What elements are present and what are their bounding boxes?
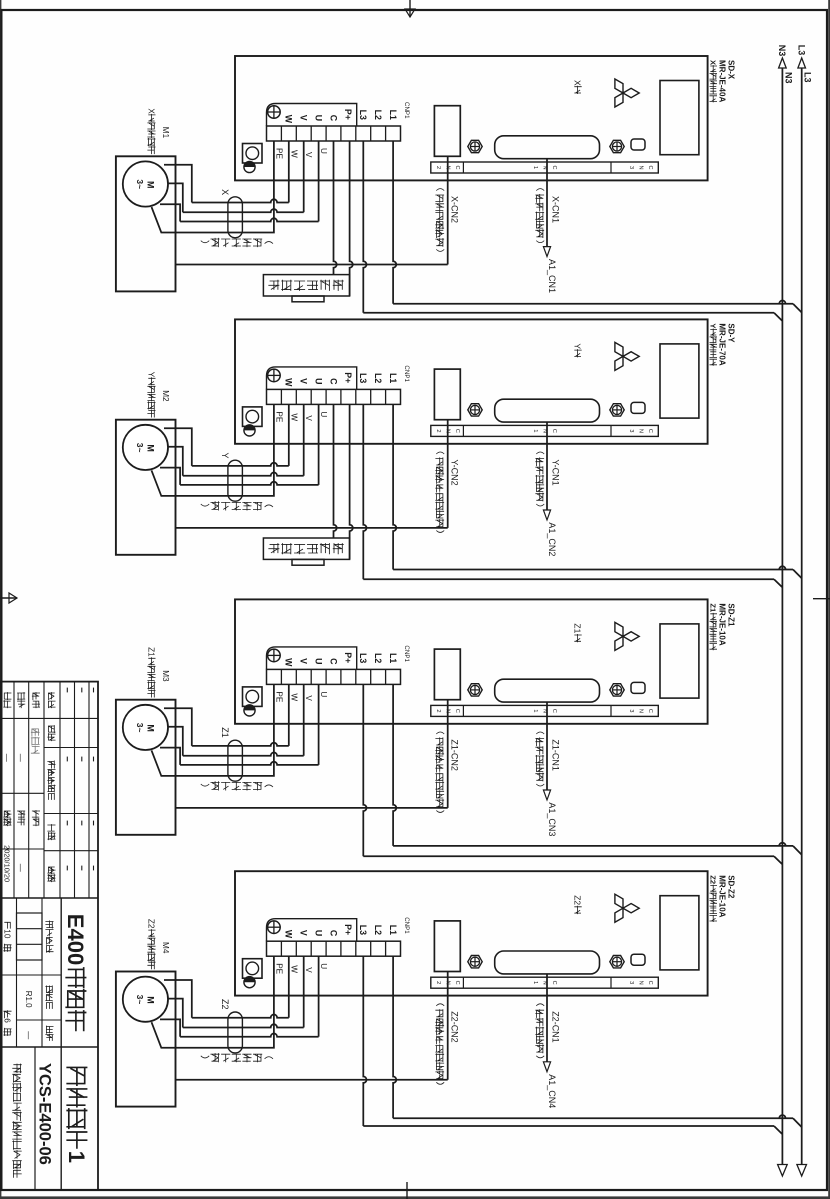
company 深圳市依创思科技有限公司 <box>13 1064 22 1073</box>
wire L3 of SD-X to bus N3 <box>363 141 366 313</box>
svg-text:W: W <box>284 658 294 667</box>
power cable oval SD-Z2 <box>228 1012 243 1053</box>
display panel of SD-X <box>660 81 699 155</box>
svg-text:V: V <box>304 152 313 158</box>
svg-text:M: M <box>146 724 156 732</box>
screw below CN1 on SD-Y <box>468 404 482 416</box>
svg-text:Y: Y <box>220 453 230 459</box>
connector CN2 socket on SD-Z2 <box>434 921 460 972</box>
svg-text:N: N <box>638 709 644 713</box>
svg-text:L3: L3 <box>358 653 368 663</box>
bar divider CN3/CN1 SD-Z2 <box>610 977 612 988</box>
wire V of SD-X <box>303 141 305 212</box>
terminal strip CNP1 of SD-Z1 <box>267 669 401 684</box>
svg-text:U: U <box>313 378 323 384</box>
screw bottom SD-X <box>244 161 255 172</box>
svg-text:Z2: Z2 <box>147 919 156 929</box>
connector CN2 socket on SD-Z1 <box>434 649 460 700</box>
terminal divider 7 SD-Y <box>295 389 297 404</box>
svg-text:Z1: Z1 <box>709 603 718 613</box>
wire U of SD-Z2 <box>318 956 320 1036</box>
power cable oval SD-X <box>228 197 243 238</box>
screw bottom SD-Z2 <box>244 977 255 988</box>
svg-text:P+: P+ <box>343 652 353 663</box>
sign 批准 <box>18 811 25 818</box>
svg-text:1: 1 <box>532 981 538 984</box>
svg-text:Z1: Z1 <box>147 647 156 657</box>
svg-text:P+: P+ <box>343 372 353 383</box>
title row line 2 <box>59 682 61 898</box>
terminal divider 5 SD-X <box>325 126 327 141</box>
svg-text:L3: L3 <box>358 373 368 383</box>
svg-text:Z2: Z2 <box>709 875 718 884</box>
page edge band top <box>828 0 830 1199</box>
header 日期 <box>48 867 55 874</box>
brake resistor element SD-Y <box>292 559 324 565</box>
wire W of SD-Y <box>288 404 290 466</box>
wire W of SD-Z1 <box>288 684 290 746</box>
label note2 SD-Y <box>436 452 444 454</box>
wire P+ of SD-Y <box>350 404 353 559</box>
svg-text:M3: M3 <box>161 670 170 682</box>
svg-text:Z1-CN1: Z1-CN1 <box>551 739 561 771</box>
svg-text:2: 2 <box>435 981 441 984</box>
motor box M3 of SD-Z1 <box>116 700 176 835</box>
screw below CN1 on SD-Z1 <box>468 684 482 696</box>
svg-text:N: N <box>638 429 644 433</box>
wire PE of SD-Z1 <box>152 684 274 776</box>
svg-text:X-CN2: X-CN2 <box>450 196 460 223</box>
svg-text:C: C <box>551 981 557 985</box>
revision dash r1 <box>81 688 83 693</box>
label note1 SD-Y <box>536 452 544 454</box>
svg-text:P+: P+ <box>343 109 353 120</box>
svg-text:R1.0: R1.0 <box>24 991 33 1008</box>
header 更改文件号 <box>48 761 55 768</box>
svg-text:U: U <box>313 115 323 121</box>
terminal divider 5 SD-Y <box>325 389 327 404</box>
svg-text:—: — <box>24 1031 33 1039</box>
terminal divider 1 SD-Z2 <box>385 941 387 956</box>
wire L3 riser SD-Z1 <box>363 855 774 857</box>
terminal divider 6 SD-Z1 <box>310 669 312 684</box>
svg-text:W: W <box>289 693 298 701</box>
svg-text:N3: N3 <box>777 45 787 57</box>
svg-text:U: U <box>313 658 323 664</box>
bar divider CN1/CN2 SD-Z2 <box>462 977 464 988</box>
A1 arrow SD-Y <box>543 510 550 520</box>
connector bar of SD-Z1 <box>431 705 659 716</box>
svg-text:V: V <box>299 930 309 936</box>
svg-text:W: W <box>289 965 298 973</box>
terminal divider 7 SD-Z1 <box>295 669 297 684</box>
wire W of SD-Z2 <box>288 956 290 1018</box>
svg-text:2: 2 <box>435 429 441 432</box>
svg-text:L1: L1 <box>388 925 398 935</box>
CNP1 bracket SD-Z1 <box>267 647 357 670</box>
sign col 793.3 <box>1 792 44 794</box>
display panel of SD-Y <box>660 344 699 418</box>
wire L1 of SD-Z1 to bus L3 <box>393 684 396 846</box>
screw above CN1 on SD-Z1 <box>610 684 624 696</box>
revision dash r0 <box>93 821 95 826</box>
svg-text:V: V <box>299 658 309 664</box>
label 伺服动力线 SD-X <box>265 242 273 244</box>
divider name/code <box>34 1047 36 1190</box>
A1 arrow SD-Z1 <box>543 790 550 800</box>
charge lamp square SD-X <box>243 144 263 164</box>
svg-text:X-CN1: X-CN1 <box>551 196 561 223</box>
CNP1 bracket SD-Y <box>267 367 357 390</box>
svg-text:1: 1 <box>532 709 538 712</box>
wire L1 riser SD-Y <box>393 566 793 569</box>
svg-text:C: C <box>454 429 460 433</box>
title row line 0 <box>88 682 90 898</box>
svg-text:Z2-CN1: Z2-CN1 <box>551 1011 561 1043</box>
svg-text:V: V <box>299 378 309 384</box>
svg-text:M: M <box>146 181 156 189</box>
label 伺服动力线 SD-Z1 <box>265 785 273 787</box>
terminal divider 5 SD-Z1 <box>325 669 327 684</box>
display panel of SD-Z2 <box>660 896 699 970</box>
wire PE of SD-X <box>152 141 274 233</box>
bar divider CN1/CN2 SD-X <box>462 162 464 173</box>
terminal label PE earth symbol SD-Y <box>268 369 281 382</box>
svg-text:X: X <box>709 60 718 65</box>
svg-text:CNP1: CNP1 <box>403 102 410 119</box>
wire W of SD-X <box>288 141 290 203</box>
motor circle M3 <box>123 705 168 750</box>
sign 何跃军 <box>31 729 39 736</box>
connector CN2 socket on SD-X <box>434 106 460 157</box>
title row line 5 <box>13 682 15 898</box>
wire L3 merge diagonal SD-Z2 <box>774 1126 782 1134</box>
revision dash r1 <box>81 757 83 762</box>
revision col 718.4 <box>44 717 98 719</box>
connector bar of SD-Y <box>431 425 659 436</box>
label 比例 <box>46 1026 53 1033</box>
label 伺服动力线 SD-Z2 <box>265 1057 273 1059</box>
wire L3 merge diagonal SD-Z1 <box>774 856 782 864</box>
terminal strip CNP1 of SD-X <box>267 126 401 141</box>
connector CN3 small socket on SD-Y <box>631 402 645 413</box>
svg-text:U: U <box>319 691 328 697</box>
svg-text:YCS-E400-06: YCS-E400-06 <box>36 1063 54 1165</box>
svg-text:C: C <box>328 658 338 665</box>
svg-text:6: 6 <box>3 1018 12 1023</box>
wire L1 merge diagonal SD-Z2 <box>793 1118 802 1127</box>
servo drive SD-Z2 outline box <box>235 871 708 995</box>
brake resistor element SD-X <box>292 296 324 302</box>
power cable oval SD-Y <box>228 460 243 501</box>
wire L3 riser SD-X <box>363 312 774 314</box>
A1 arrow SD-X <box>543 247 550 257</box>
svg-text:E400: E400 <box>63 914 88 965</box>
CN1 cable wire SD-Y <box>546 422 548 510</box>
label 伺服动力线 SD-Y <box>265 505 273 507</box>
svg-text:SD-Z2: SD-Z2 <box>727 875 736 899</box>
svg-text:X: X <box>147 108 156 114</box>
svg-text:3~: 3~ <box>135 179 145 189</box>
svg-text:2: 2 <box>435 709 441 712</box>
svg-text:L2: L2 <box>373 110 383 120</box>
sign 日期 <box>4 811 11 818</box>
CN1 cable wire SD-Z1 <box>546 702 548 790</box>
motor box M1 of SD-X <box>116 156 176 291</box>
wire U of SD-Y <box>318 404 320 485</box>
wire L1 riser SD-Z2 <box>393 1115 793 1118</box>
sign 设计 <box>32 693 39 700</box>
screw below CN1 on SD-X <box>468 140 482 152</box>
svg-text:U: U <box>319 963 328 969</box>
svg-text:C: C <box>328 930 338 937</box>
wire L1 of SD-Y to bus L3 <box>393 404 396 569</box>
bar divider CN1/CN2 SD-Z1 <box>462 705 464 716</box>
terminal divider 8 SD-X <box>280 126 282 141</box>
bus L3 source arrow <box>798 58 806 68</box>
svg-text:A1_CN2: A1_CN2 <box>547 522 557 556</box>
centering mark top edge <box>813 598 830 600</box>
svg-text:V: V <box>299 115 309 121</box>
svg-text:W: W <box>284 378 294 387</box>
screw above CN1 on SD-Y <box>610 404 624 416</box>
label note2 SD-Z1 <box>436 732 444 734</box>
svg-text:3: 3 <box>628 709 634 712</box>
connector CN1 D-sub on SD-Y <box>495 399 600 422</box>
revision dash r2 <box>66 821 68 826</box>
svg-text:C: C <box>551 709 557 713</box>
terminal divider 4 SD-X <box>340 126 342 141</box>
terminal divider 4 SD-Z2 <box>340 941 342 956</box>
wire U of SD-Z1 <box>318 684 320 765</box>
terminal divider 2 SD-Y <box>370 389 372 404</box>
svg-text:N: N <box>638 981 644 985</box>
svg-text:M2: M2 <box>161 390 170 402</box>
wire L3 riser SD-Z2 <box>363 1125 774 1127</box>
svg-text:C: C <box>551 429 557 433</box>
header 标记 <box>48 693 54 700</box>
svg-text:C: C <box>454 981 460 985</box>
svg-text:Z2: Z2 <box>573 895 583 905</box>
terminal divider 3 SD-Z2 <box>355 941 357 956</box>
svg-text:A1_CN3: A1_CN3 <box>547 802 557 836</box>
bar divider CN3/CN1 SD-Y <box>610 425 612 436</box>
label note1 SD-X <box>536 189 544 191</box>
centering mark right edge <box>406 1182 408 1199</box>
revision dash r2 <box>66 688 68 693</box>
wire L1 merge diagonal SD-Y <box>793 570 802 579</box>
terminal divider 4 SD-Z1 <box>340 669 342 684</box>
connector bar of SD-X <box>431 162 659 173</box>
revision dash r1 <box>81 866 83 871</box>
svg-text:V: V <box>304 415 313 421</box>
svg-text:Y-CN2: Y-CN2 <box>450 459 460 485</box>
stage row2 line <box>41 898 43 1047</box>
stage col line <box>1 974 61 976</box>
power cable oval SD-Z1 <box>228 740 243 781</box>
svg-text:PE: PE <box>274 691 283 702</box>
terminal divider 5 SD-Z2 <box>325 941 327 956</box>
title row line 3 <box>43 682 45 898</box>
svg-text:M: M <box>146 444 156 452</box>
svg-text:W: W <box>289 413 298 421</box>
label note1 SD-Z2 <box>536 1004 544 1006</box>
svg-text:3~: 3~ <box>135 995 145 1005</box>
charge lamp square SD-Z2 <box>243 959 263 979</box>
stage row3 line <box>16 898 18 1047</box>
revision dash r2 <box>66 866 68 871</box>
title block outline <box>1 682 98 1190</box>
terminal divider 7 SD-X <box>295 126 297 141</box>
svg-text:Y: Y <box>147 372 156 378</box>
svg-text:Z1: Z1 <box>220 727 230 738</box>
connector CN2 socket on SD-Y <box>434 369 460 420</box>
svg-text:Y-CN1: Y-CN1 <box>551 459 561 485</box>
sign col 849 <box>1 848 44 850</box>
title row line 1 <box>74 682 76 898</box>
svg-text:Z2: Z2 <box>220 999 230 1010</box>
svg-text:C: C <box>454 165 460 169</box>
terminal divider 8 SD-Z1 <box>280 669 282 684</box>
wire L1 merge diagonal SD-Z1 <box>793 846 802 855</box>
display panel of SD-Z1 <box>660 624 699 698</box>
header 处数 <box>48 726 55 733</box>
label 版本号 <box>46 986 53 993</box>
svg-text:X: X <box>220 189 230 195</box>
Mitsubishi logo on SD-Z2 <box>615 894 639 922</box>
label 内置制动电阻 SD-X <box>333 280 343 290</box>
svg-text:Z2-CN2: Z2-CN2 <box>450 1011 460 1043</box>
wire L1 riser SD-X <box>393 301 793 304</box>
svg-text:L3: L3 <box>803 72 813 83</box>
encoder wire Z1-CN2 SD-Z1 <box>447 700 449 808</box>
svg-text:L2: L2 <box>373 653 383 663</box>
svg-text:PE: PE <box>274 148 283 159</box>
built-in brake resistor box SD-X <box>263 275 349 296</box>
bar divider CN3/CN1 SD-X <box>610 162 612 173</box>
svg-text:SD-X: SD-X <box>727 60 736 80</box>
svg-text:C: C <box>328 115 338 122</box>
svg-text:U: U <box>313 930 323 936</box>
divider stage row <box>60 898 62 1190</box>
revision dash r0 <box>93 757 95 762</box>
bus N3 source arrow <box>779 58 787 68</box>
terminal divider 6 SD-Y <box>310 389 312 404</box>
wire L3 merge diagonal SD-Y <box>774 579 782 587</box>
wire L1 of SD-Z2 to bus L3 <box>393 956 396 1118</box>
servo drive SD-Y outline box <box>235 319 708 443</box>
revision col 850.7 <box>44 850 98 852</box>
page edge band right <box>0 1196 830 1199</box>
wire V of SD-Z1 <box>303 684 305 755</box>
svg-text:1: 1 <box>532 166 538 169</box>
terminal label PE earth symbol SD-Z1 <box>268 649 281 662</box>
screw bottom SD-Y <box>244 425 255 436</box>
terminal strip CNP1 of SD-Y <box>267 389 401 404</box>
svg-text:P+: P+ <box>343 924 353 935</box>
svg-text:N: N <box>638 165 644 169</box>
motor circle M1 <box>123 161 168 206</box>
Mitsubishi logo on SD-X <box>615 79 639 107</box>
CN1 cable wire SD-X <box>546 159 548 247</box>
Mitsubishi logo on SD-Y <box>615 342 639 370</box>
terminal divider 1 SD-X <box>385 126 387 141</box>
svg-text:L2: L2 <box>373 925 383 935</box>
terminal divider 1 SD-Z1 <box>385 669 387 684</box>
wire L1 riser SD-Z1 <box>393 843 793 846</box>
bar divider CN3/CN1 SD-Z1 <box>610 705 612 716</box>
encoder wire X-CN2 SD-X <box>447 156 449 264</box>
svg-text:Y: Y <box>573 343 583 349</box>
svg-text:CNP1: CNP1 <box>403 365 410 382</box>
svg-text:U: U <box>319 148 328 154</box>
servo drive SD-Z1 outline box <box>235 599 708 723</box>
wire C of SD-Y <box>334 404 337 538</box>
centering mark bottom edge <box>0 593 17 603</box>
svg-text:W: W <box>289 150 298 158</box>
svg-text:N3: N3 <box>783 72 793 84</box>
terminal divider 2 SD-X <box>370 126 372 141</box>
revision dash r1 <box>81 821 83 826</box>
motor circle M4 <box>123 977 168 1022</box>
terminal divider 1 SD-Y <box>385 389 387 404</box>
label 内置制动电阻 SD-Y <box>333 544 343 554</box>
wire L1 of SD-X to bus L3 <box>393 141 396 304</box>
screw above CN1 on SD-Z2 <box>610 956 624 968</box>
connector CN1 D-sub on SD-Z2 <box>495 951 600 974</box>
svg-text:L3: L3 <box>358 925 368 935</box>
terminal divider 8 SD-Z2 <box>280 941 282 956</box>
motor circle M2 <box>123 425 168 470</box>
svg-text:1: 1 <box>64 1151 89 1163</box>
servo drive SD-X outline box <box>235 56 708 180</box>
svg-text:3~: 3~ <box>135 443 145 453</box>
svg-text:W: W <box>284 930 294 939</box>
svg-text:SD-Y: SD-Y <box>727 323 736 343</box>
svg-text:L3: L3 <box>358 110 368 120</box>
svg-text:MR-JE-10A: MR-JE-10A <box>718 875 727 917</box>
svg-text:Z1: Z1 <box>573 623 583 633</box>
terminal strip CNP1 of SD-Z2 <box>267 941 401 956</box>
terminal divider 8 SD-Y <box>280 389 282 404</box>
svg-text:M4: M4 <box>161 942 170 954</box>
svg-text:SD-Z1: SD-Z1 <box>727 603 736 627</box>
svg-text:C: C <box>647 429 653 433</box>
label 阶段标记 <box>46 921 53 928</box>
motor box M4 of SD-Z2 <box>116 972 176 1107</box>
encoder wire Y-CN2 SD-Y <box>447 420 449 528</box>
svg-text:M: M <box>146 996 156 1004</box>
header 签名 <box>48 825 55 832</box>
drawing title 伺服电路1 <box>67 1067 86 1085</box>
wire L3 riser SD-Y <box>363 578 774 580</box>
CN1 cable wire SD-Z2 <box>546 974 548 1062</box>
svg-text:C: C <box>328 378 338 385</box>
svg-text:W: W <box>284 115 294 124</box>
svg-text:—: — <box>2 754 11 762</box>
svg-text:MR-JE-40A: MR-JE-40A <box>718 60 727 102</box>
wire L1 merge diagonal SD-X <box>793 304 802 313</box>
built-in brake resistor box SD-Y <box>263 538 349 559</box>
terminal divider 3 SD-Z1 <box>355 669 357 684</box>
title divider left/right <box>1 897 98 899</box>
svg-text:—: — <box>16 754 25 762</box>
svg-text:A1_CN1: A1_CN1 <box>547 259 557 293</box>
label note1 SD-Z1 <box>536 732 544 734</box>
revision dash r2 <box>66 757 68 762</box>
svg-text:U: U <box>319 411 328 417</box>
label note2 SD-X <box>436 189 444 191</box>
